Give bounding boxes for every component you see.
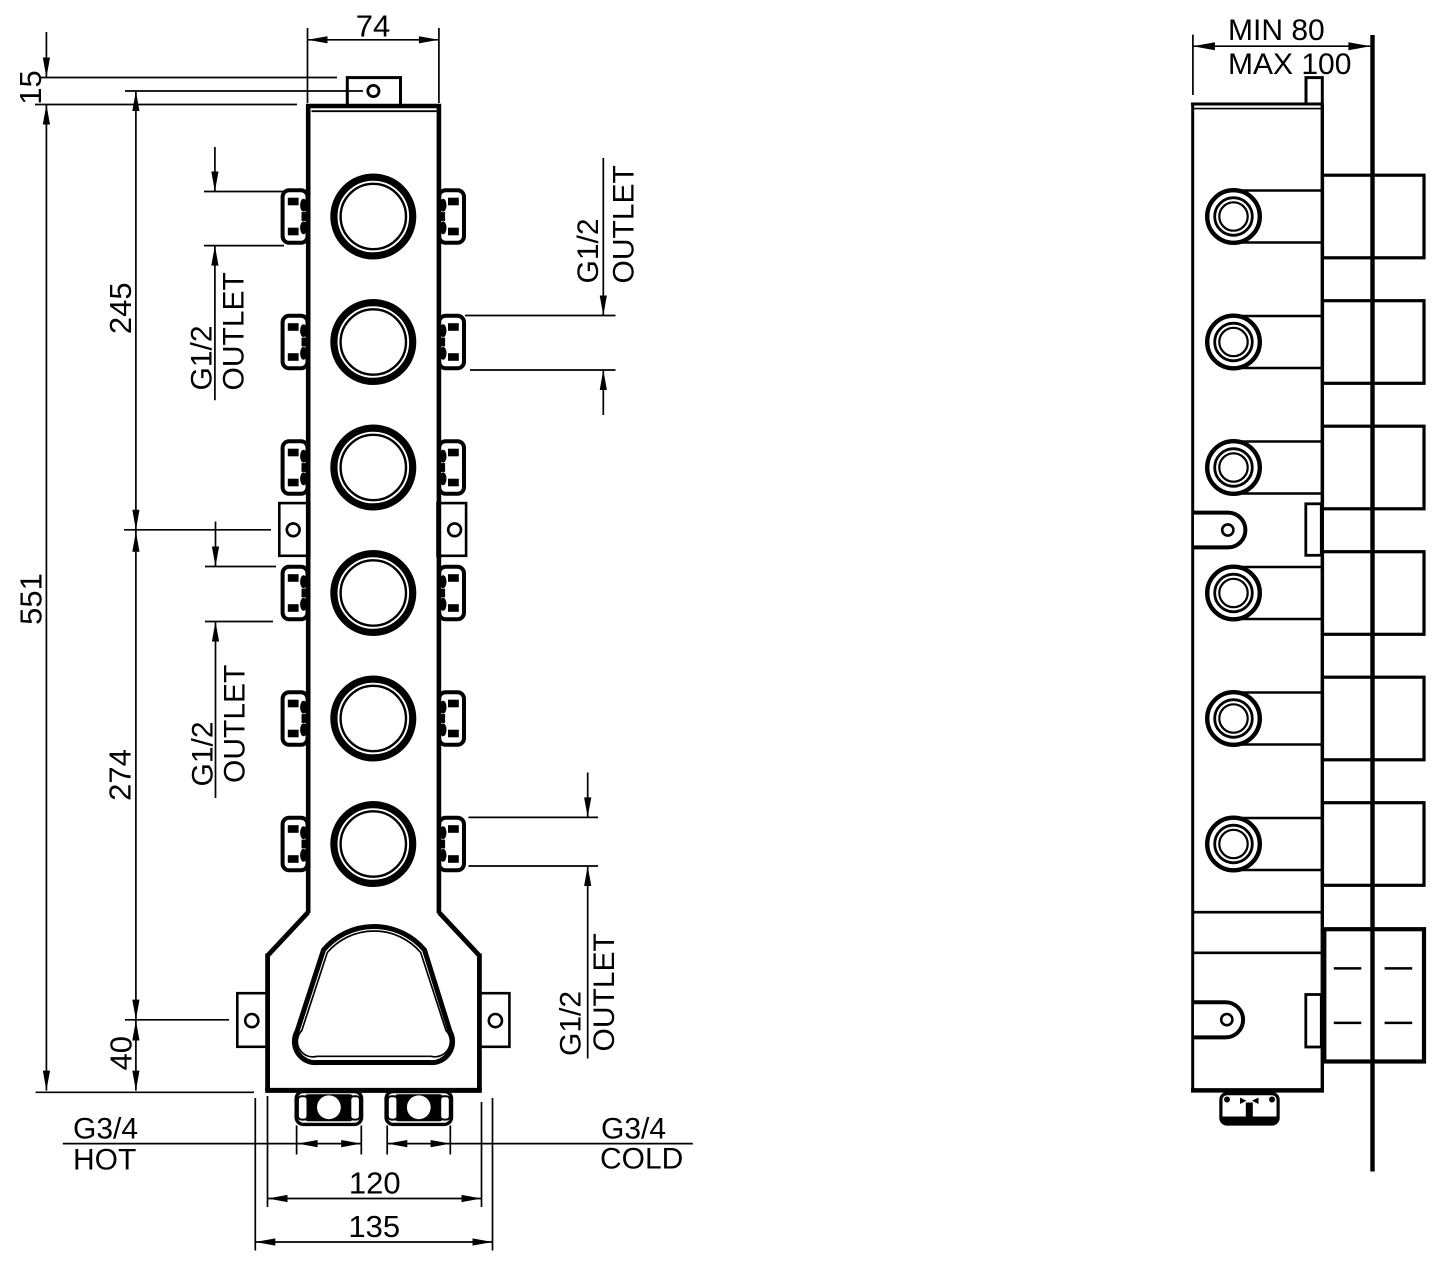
dim 74 extension lines [307,28,309,103]
front view: lower box left side [265,954,270,1091]
callout G1/2 OUTLET right row2: leader and arrow [602,158,604,316]
dim 135 extension lines [254,1098,256,1251]
side port nut row 5 [1207,692,1260,745]
side view: taper top line [1194,911,1321,914]
cartridge port opening 5 [334,679,413,758]
side mid tab hole [1222,524,1233,535]
left mid mounting tab [279,503,309,556]
G3/4 HOT inlet nut [296,1092,361,1125]
front view: top fixing tab [347,78,400,106]
dim 120 line and arrows [268,1198,482,1200]
G3/4 COLD inlet nut [386,1092,451,1125]
callout G1/2 OUTLET right row6: stub arrow [587,773,589,818]
dim 40 line and arrows [135,1021,137,1091]
dim 15 line and arrows [45,32,47,78]
cartridge port opening 2 [334,303,413,382]
side view: bottom trim block [1324,929,1424,1061]
extension line tab hole center [125,90,363,92]
svg-text:120: 120 [349,1166,401,1201]
svg-text:G1/2: G1/2 [572,218,605,283]
svg-text:40: 40 [104,1036,139,1070]
G1/2 outlet fitting right row 6 [439,818,464,871]
svg-text:HOT: HOT [73,1144,136,1177]
side view: taper bottom line [1194,951,1321,954]
dim 120 extension lines [267,1096,269,1207]
svg-text:MIN 80: MIN 80 [1228,14,1325,47]
side view: mid plaster bracket [1306,504,1322,556]
callout left row4 leader and arrow [215,622,217,799]
side view: bottom plaster bracket [1306,995,1322,1048]
dim 135 line and arrows [255,1241,492,1243]
G3/4 nut extension lines COLD [386,1126,388,1155]
trim block row 3 [1323,426,1425,509]
G1/2 outlet fitting left row 4 [283,567,308,620]
trim block row 4 [1323,552,1425,635]
callout G1/2 OUTLET left row1: stub arrow [214,147,216,192]
right mid mounting tab [438,503,467,556]
svg-text:MAX 100: MAX 100 [1228,48,1351,81]
dim 551 line and arrows [45,105,47,1091]
front view: valve body outline [308,106,439,913]
G1/2 outlet fitting left row 3 [283,441,308,494]
svg-text:OUTLET: OUTLET [588,933,621,1051]
side port nut row 2 [1207,316,1260,369]
callout right row2 fitting edge lines [465,315,616,317]
side view: mid tab tongue [1194,513,1245,548]
spout bell opening outer [294,926,452,1062]
extension line body bottom [36,1091,254,1093]
G1/2 outlet fitting left row 2 [283,316,308,369]
svg-text:OUTLET: OUTLET [608,165,641,283]
G3/4 HOT leader line [63,1143,361,1145]
dim 274 line and arrows [135,530,137,1020]
svg-text:COLD: COLD [600,1143,683,1176]
G1/2 outlet fitting right row 1 [439,190,464,243]
dim MIN 80 MAX 100 line and arrows [1193,45,1371,47]
top tab screw hole [368,85,379,96]
callout right row6 fitting edge lines [469,816,599,818]
callout left row1 fitting edge lines [204,191,284,193]
cartridge port opening 3 [334,428,413,507]
svg-text:OUTLET: OUTLET [218,272,251,390]
side tube row 2 [1234,315,1322,317]
left bottom tab hole [245,1014,258,1027]
side view: body bottom edge [1191,1088,1324,1093]
side bottom tab hole [1221,1014,1232,1025]
extension line tab top [40,77,337,79]
extension line body top [35,104,297,106]
G1/2 outlet fitting right row 5 [439,692,464,745]
side port nut row 1 [1207,190,1260,243]
side tube row 3 [1234,440,1322,442]
right bottom mounting tab [478,993,509,1047]
cartridge port opening 6 [334,805,413,884]
left mid tab hole [287,523,300,536]
svg-text:15: 15 [13,70,48,104]
G1/2 outlet fitting right row 2 [439,316,464,369]
svg-text:135: 135 [348,1209,400,1244]
svg-text:G3/4: G3/4 [73,1112,138,1145]
side view: body top inner line [1193,108,1321,110]
callout left row1 leader and arrow [214,246,216,401]
svg-text:245: 245 [103,282,138,334]
right bottom tab hole [489,1014,502,1027]
callout left row4 fitting edge lines [205,566,276,568]
side view: top tab [1306,78,1322,104]
side port nut row 6 [1207,818,1260,871]
side tube row 4 [1234,566,1322,568]
G1/2 outlet fitting left row 1 [283,190,308,243]
front view: body top inner edge [312,110,437,112]
side view: body front edge [1321,104,1324,1091]
svg-text:G1/2: G1/2 [555,991,588,1056]
cartridge port opening 4 [334,554,413,633]
side tube row 6 [1234,817,1322,819]
front view: right taper edge [439,912,480,955]
side tube row 1 [1234,189,1322,191]
svg-text:G3/4: G3/4 [601,1112,666,1145]
svg-text:G1/2: G1/2 [186,721,219,786]
svg-text:274: 274 [103,749,138,801]
callout right row2 stub arrow [602,370,604,415]
G3/4 nut extension lines HOT [296,1126,298,1155]
spout bell opening inner line [297,931,450,1057]
dim MIN 80 MAX 100 extension line [1192,35,1194,95]
side view: body back edge [1191,103,1194,1091]
side port nut row 4 [1207,567,1260,620]
callout right row6 leader and arrow [587,866,589,1059]
G1/2 outlet fitting right row 3 [439,441,464,494]
G1/2 outlet fitting left row 6 [283,818,308,871]
front view: left taper edge [268,912,309,955]
trim block row 2 [1323,301,1425,384]
trim block row 6 [1323,803,1425,886]
side view: bottom tab tongue [1194,1002,1243,1037]
right mid tab hole [448,523,461,536]
svg-text:551: 551 [14,573,49,625]
G1/2 outlet fitting left row 5 [283,692,308,745]
front view: lower box bottom edge [265,1088,482,1093]
svg-text:G1/2: G1/2 [186,325,219,390]
extension line mid tab hole center [124,529,271,531]
G3/4 COLD leader line [387,1143,693,1145]
extension line bottom tab hole center [125,1019,229,1021]
finished wall line [1370,35,1374,1172]
bottom trim block dashes [1334,967,1362,970]
dim 74 line and arrows [308,39,439,41]
svg-text:74: 74 [356,8,390,43]
trim block row 5 [1323,677,1425,760]
callout G1/2 OUTLET left row4: stub arrow [215,522,217,567]
trim block row 1 [1323,175,1425,258]
side view: body top edge [1191,103,1322,106]
dim 245 line and arrows [135,91,137,530]
cartridge port opening 1 [334,177,413,256]
front view: lower box right side [477,954,482,1091]
G1/2 outlet fitting right row 4 [439,567,464,620]
side port nut row 3 [1207,441,1260,494]
side view: G3/4 inlet nut [1221,1094,1278,1124]
left bottom mounting tab [237,993,268,1047]
side tube row 5 [1234,691,1322,693]
svg-text:OUTLET: OUTLET [219,665,252,783]
